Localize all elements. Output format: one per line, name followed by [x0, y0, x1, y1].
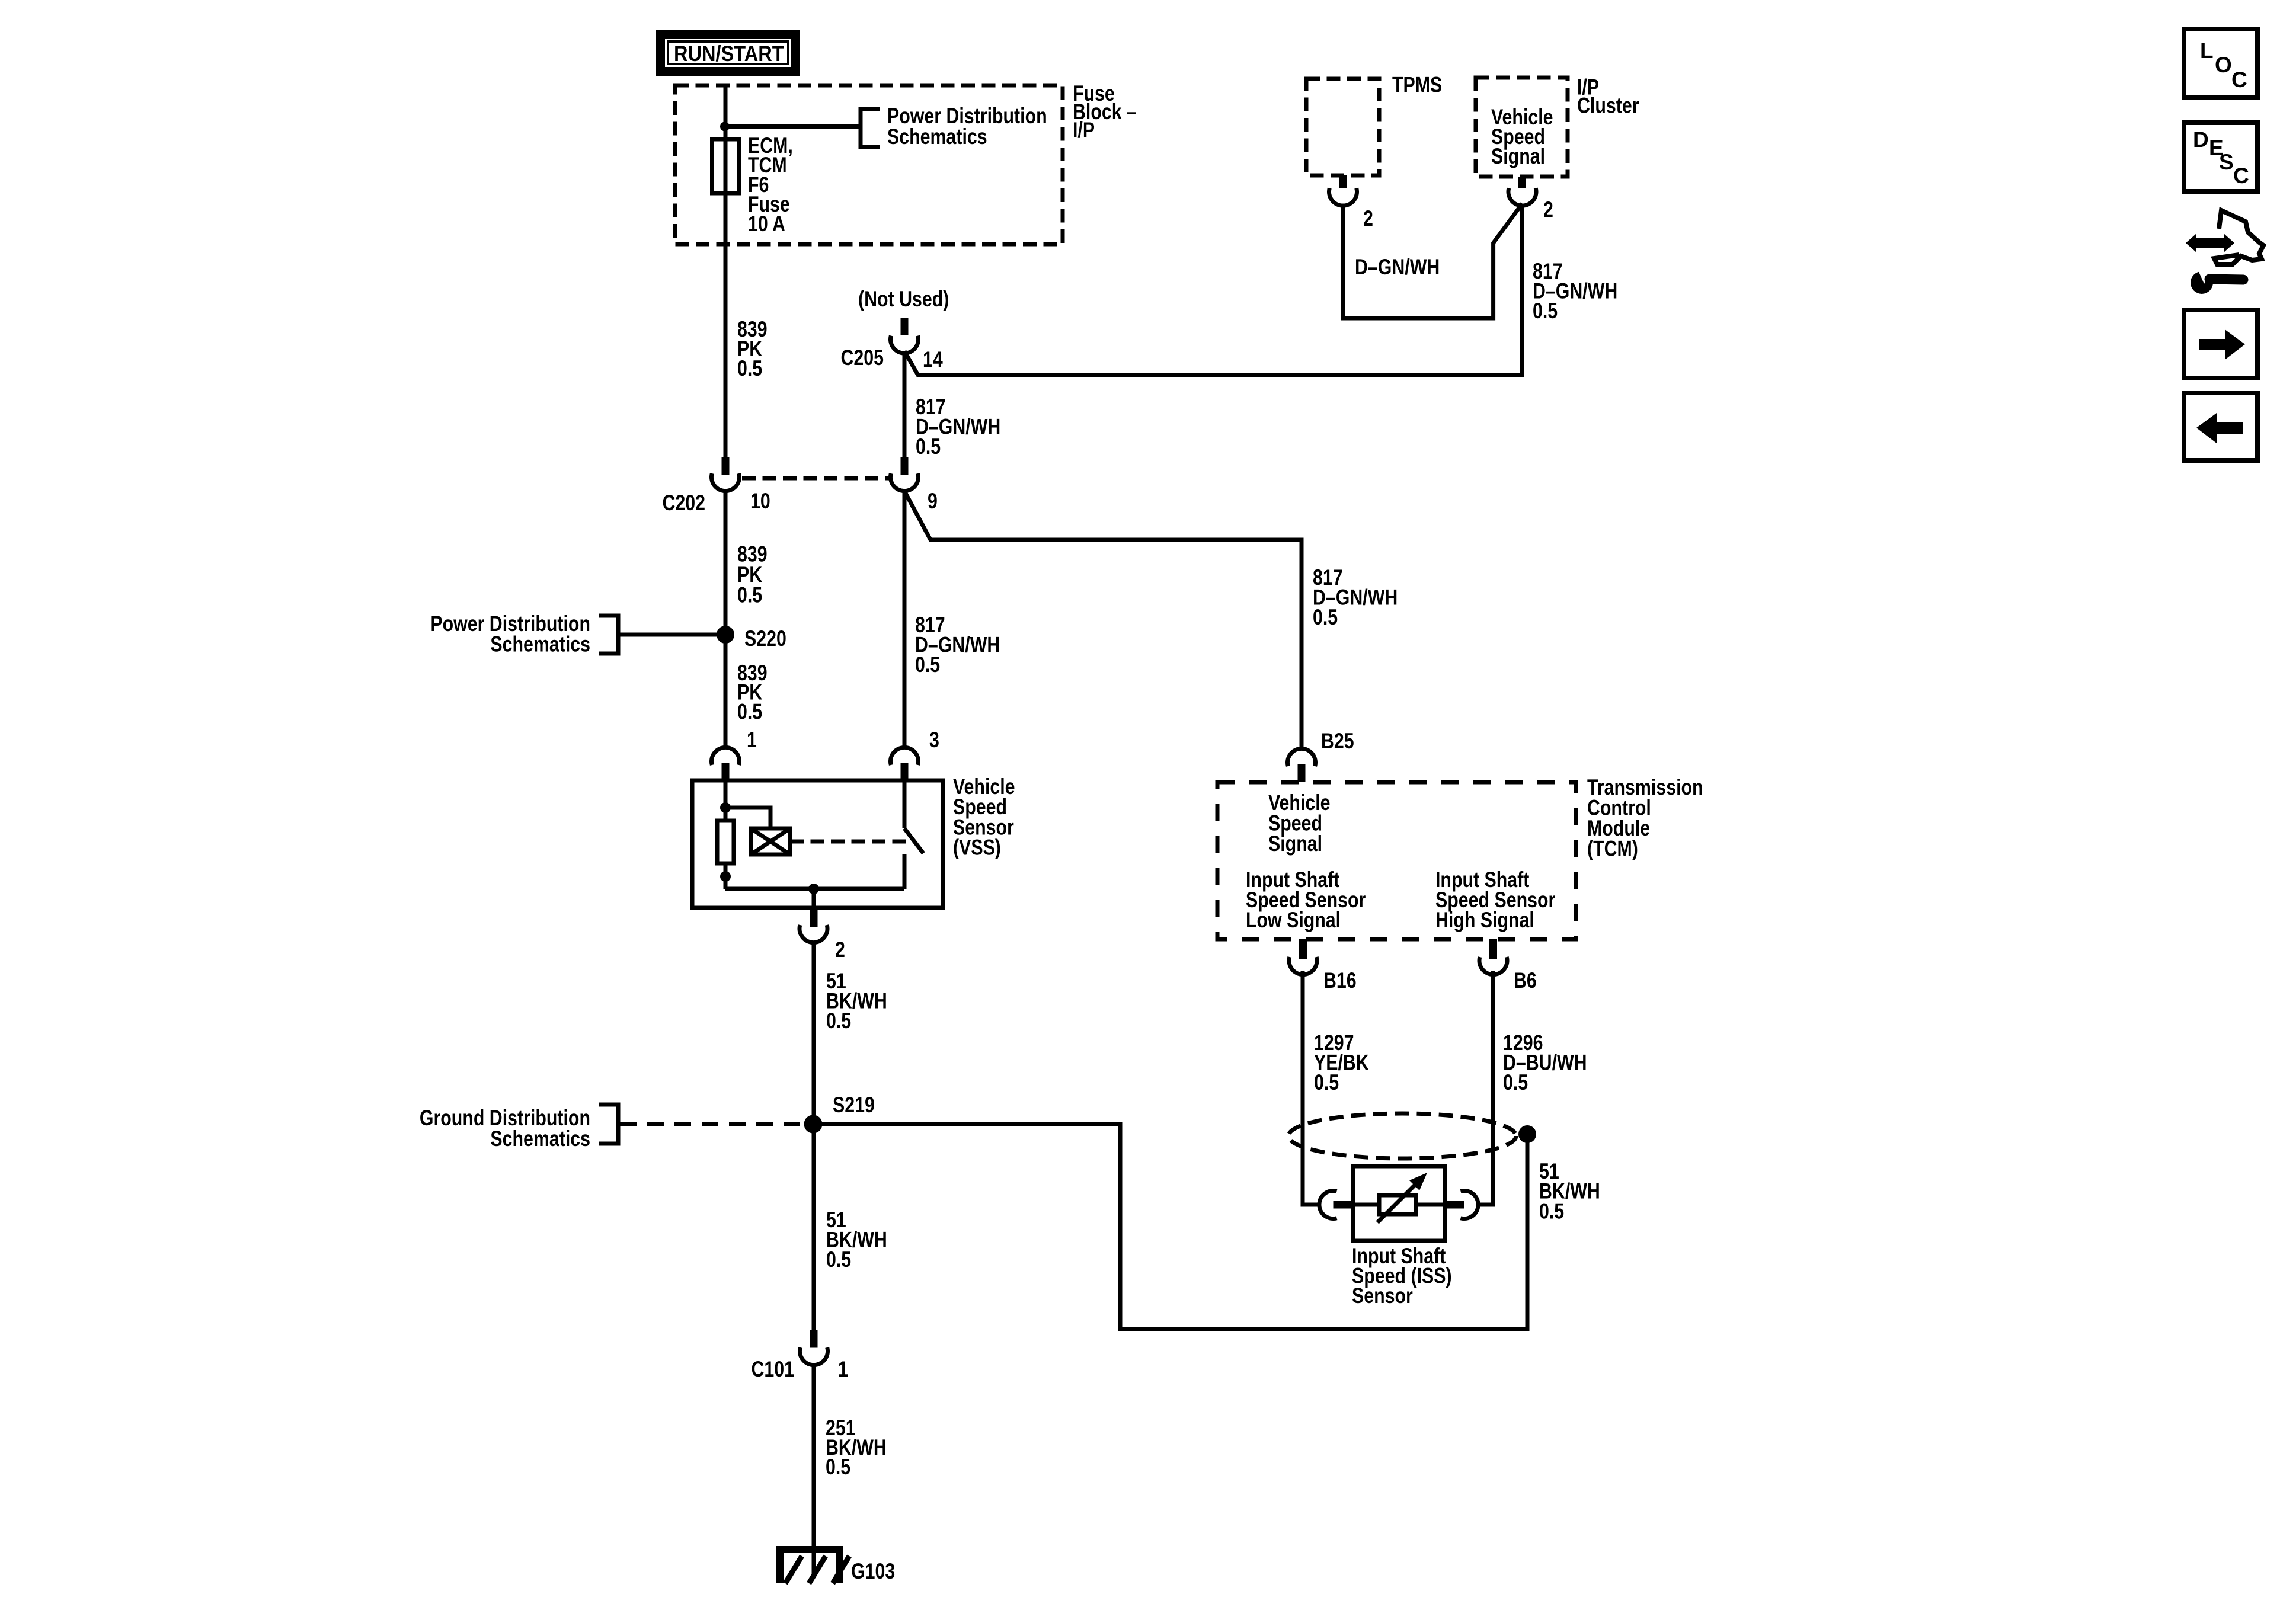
svg-text:(Not Used): (Not Used): [858, 287, 949, 312]
connector C202 pin 9: [891, 457, 919, 491]
ignition switch RUN/START: [656, 30, 800, 76]
svg-text:S220: S220: [744, 626, 786, 651]
bracket ground distribution: [599, 1105, 618, 1144]
VSS internal junction dot upper: [720, 802, 731, 813]
legend box LOC: [2184, 29, 2257, 98]
svg-text:D–GN/WH: D–GN/WH: [1355, 255, 1440, 280]
ISS arrow: [1377, 1173, 1427, 1222]
wire 817 C205 branch to I/P cluster: [904, 204, 1523, 376]
wire 1296 D-BU/WH B6 to ISS: [1478, 971, 1493, 1205]
splice S219: [804, 1115, 823, 1134]
connector VSS pin 1: [712, 747, 740, 780]
svg-text:VehicleSpeedSignal: VehicleSpeedSignal: [1268, 790, 1331, 856]
svg-text:1: 1: [747, 728, 757, 753]
ISS sensor box: [1353, 1166, 1445, 1241]
VSS internal junction dot lower: [720, 871, 731, 882]
wire 817 C205 down to pin 9: [903, 351, 907, 457]
svg-text:L: L: [2200, 39, 2214, 63]
connector TCM B6: [1479, 939, 1507, 975]
wire RUN/START to C202 pin 10: [724, 85, 728, 457]
dashed connector line C202: [742, 476, 889, 481]
svg-text:9: 9: [928, 489, 938, 514]
VSS internal dashed actuation line: [790, 840, 907, 844]
svg-text:14: 14: [923, 347, 943, 372]
svg-text:S219: S219: [833, 1093, 875, 1118]
svg-text:B6: B6: [1514, 968, 1537, 993]
ISS internal wire: [1353, 1203, 1445, 1207]
splice shield drain dot: [1518, 1125, 1536, 1143]
svg-text:D: D: [2193, 127, 2209, 152]
connector C202 pin 10: [712, 457, 740, 491]
svg-text:S: S: [2219, 150, 2234, 174]
connector ISS right: [1444, 1191, 1479, 1219]
connector VSS pin 2: [800, 908, 827, 943]
svg-text:C: C: [2233, 164, 2249, 188]
TCM dashed box: [1217, 782, 1576, 939]
svg-text:C101: C101: [751, 1357, 794, 1382]
I/P cluster dashed box: [1476, 78, 1568, 177]
fuse block dashed box: [675, 85, 1063, 244]
svg-text:C: C: [2231, 68, 2247, 92]
wire D-GN/WH TPMS loop: [1343, 204, 1523, 319]
svg-text:G103: G103: [851, 1559, 895, 1584]
VSS internal resistor: [717, 821, 734, 863]
svg-text:TPMS: TPMS: [1392, 73, 1442, 98]
bracket power distribution (S220): [599, 616, 618, 654]
svg-text:10: 10: [750, 489, 770, 514]
svg-text:RUN/START: RUN/START: [674, 41, 784, 66]
wire 251 BK/WH C101 to G103: [812, 1363, 816, 1578]
VSS internal output wire: [812, 889, 816, 910]
wire 1297 YE/BK B16 to ISS: [1303, 971, 1319, 1205]
svg-text:2: 2: [1543, 197, 1553, 222]
svg-text:C205: C205: [840, 345, 884, 370]
VSS internal junction dot output: [808, 884, 819, 894]
ISS variable resistor: [1379, 1195, 1416, 1214]
VSS internal switch: [904, 780, 923, 889]
TPMS dashed box: [1306, 79, 1379, 175]
shield ellipse (twisted pair): [1288, 1113, 1516, 1158]
connector TCM B25: [1287, 748, 1315, 782]
connector TCM B16: [1289, 939, 1317, 975]
connector I/P cluster pin 2: [1508, 177, 1536, 206]
legend box DESC: [2184, 123, 2257, 191]
connector C101 pin 1: [800, 1330, 828, 1365]
VSS internal wire pin1 branch: [724, 780, 728, 889]
VSS internal wire to coil: [725, 808, 770, 828]
junction dot in fuse block: [720, 122, 730, 132]
legend box back arrow: [2184, 393, 2257, 460]
legend diagnostic icon double arrow: [2186, 233, 2234, 252]
wire 817 pin 9 branch to TCM B25: [904, 491, 1302, 749]
svg-text:2: 2: [1363, 206, 1373, 231]
VSS internal bottom wire: [725, 887, 904, 891]
splice S220: [717, 626, 734, 644]
svg-text:C202: C202: [662, 491, 705, 516]
svg-text:2: 2: [835, 937, 845, 962]
svg-text:B25: B25: [1321, 729, 1354, 754]
wire fuse block tap to power distribution: [725, 124, 861, 129]
svg-text:3: 3: [929, 728, 939, 753]
wire 51 BK/WH VSS to S219: [812, 941, 816, 1124]
svg-text:VehicleSpeedSignal: VehicleSpeedSignal: [1491, 105, 1553, 169]
fuse ECM TCM F6 10A: [712, 139, 739, 193]
legend diagnostic icon wrench: [2191, 267, 2243, 294]
wire 51 BK/WH S219 to C101: [812, 1124, 816, 1330]
svg-text:1: 1: [838, 1357, 848, 1382]
legend box forward arrow: [2184, 310, 2257, 378]
wire S220 tap: [618, 633, 725, 637]
svg-text:O: O: [2215, 53, 2232, 77]
svg-text:B16: B16: [1323, 968, 1357, 993]
VSS box: [692, 780, 943, 908]
wire 839 PK C202 to VSS pin 1: [724, 491, 728, 748]
connector C205 pin 14: [891, 318, 919, 353]
connector TPMS pin 2: [1329, 175, 1357, 206]
legend diagnostic icon part outline: [2214, 210, 2263, 264]
bracket power distribution (fuse block): [861, 109, 880, 147]
connector VSS pin 3: [891, 747, 919, 780]
wire 817 pin 9 to VSS pin 3: [903, 491, 907, 748]
connector ISS left: [1319, 1191, 1354, 1219]
VSS internal coil symbol: [751, 828, 790, 854]
wire 51 BK/WH shield drain to S219: [822, 1124, 1527, 1329]
ground G103 symbol: [780, 1550, 849, 1583]
dashed wire ground distribution to S219: [620, 1122, 802, 1126]
